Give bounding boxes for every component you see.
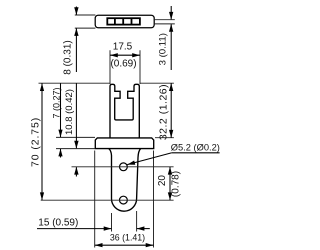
- svg-text:8 (0.31): 8 (0.31): [63, 40, 74, 74]
- svg-text:15 (0.59): 15 (0.59): [38, 218, 78, 229]
- svg-text:(0.69): (0.69): [110, 59, 136, 70]
- svg-text:Ø5.2 (Ø0.2): Ø5.2 (Ø0.2): [171, 143, 220, 153]
- svg-text:17.5: 17.5: [113, 41, 133, 52]
- svg-text:(0.78): (0.78): [171, 171, 182, 197]
- svg-text:32.2 (1.26): 32.2 (1.26): [157, 84, 169, 140]
- svg-text:70 (2.75): 70 (2.75): [29, 117, 41, 167]
- svg-text:36 (1.41): 36 (1.41): [110, 232, 145, 242]
- svg-text:3 (0.11): 3 (0.11): [157, 33, 168, 65]
- svg-text:20: 20: [157, 175, 168, 187]
- svg-text:7 (0.27): 7 (0.27): [52, 87, 62, 118]
- svg-text:10.8 (0.42): 10.8 (0.42): [64, 89, 75, 135]
